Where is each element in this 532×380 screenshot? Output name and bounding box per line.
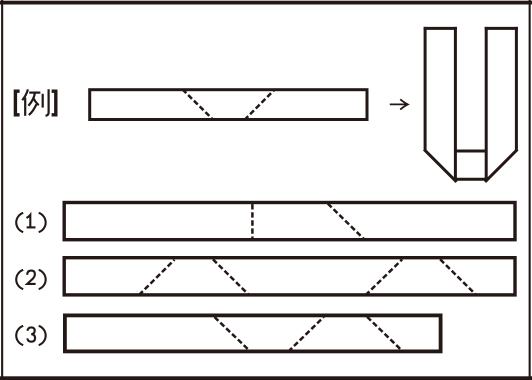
left fold diagonal bbox=[424, 149, 457, 182]
kanji 例 夕 outer slash bbox=[28, 93, 35, 106]
strip (2) backslash crease D dashed bbox=[440, 259, 476, 295]
right arm outer vertical bbox=[515, 27, 518, 150]
strip (1) vertical crease dashed bbox=[251, 204, 254, 238]
strip (3) rectangle bbox=[65, 315, 441, 351]
left arm outer vertical bbox=[424, 27, 427, 150]
left arm top cap bbox=[424, 27, 457, 30]
kanji 例 person radical slash bbox=[22, 89, 28, 100]
kanji 例 夕 lower sweep bbox=[29, 104, 37, 115]
label 【例】 (example) drawn as strokes bbox=[15, 89, 55, 116]
right bracket 】 bbox=[52, 91, 56, 115]
strip (3) backslash crease B dashed bbox=[367, 317, 403, 352]
page frame left bbox=[1, 0, 3, 380]
folded result shape bbox=[424, 27, 518, 182]
square top edge bbox=[455, 150, 486, 153]
square bottom edge bbox=[454, 178, 488, 181]
example strip rectangle bbox=[90, 90, 367, 120]
kanji 例 刂 short vertical bbox=[42, 94, 44, 108]
strip (1) rectangle bbox=[64, 203, 515, 240]
right fold diagonal bbox=[485, 149, 517, 182]
example crease (slash) dashed bbox=[244, 89, 275, 120]
right arm inner vertical bbox=[485, 27, 488, 181]
page frame top bbox=[0, 1, 532, 5]
left bracket 【 bbox=[15, 91, 19, 115]
strip (2) backslash crease B dashed bbox=[213, 259, 249, 295]
strip (3) backslash crease A dashed bbox=[215, 317, 251, 352]
kanji 例 top horizontal of 歹 bbox=[29, 91, 40, 93]
page frame right bbox=[529, 0, 531, 380]
strip (2) rectangle bbox=[64, 258, 515, 295]
left arm inner vertical bbox=[454, 27, 457, 181]
strip (3) slash crease dashed bbox=[288, 317, 324, 352]
strip (2) slash crease A dashed bbox=[139, 260, 175, 295]
strip (2) slash crease C dashed bbox=[366, 259, 403, 295]
kanji 例 刂 long vertical with hook bbox=[46, 89, 49, 116]
label (2) bbox=[16, 270, 45, 289]
kanji 例 夕 inner stroke bbox=[34, 99, 39, 106]
arrow bbox=[390, 99, 408, 109]
label (3) bbox=[16, 326, 45, 345]
right arm top cap bbox=[485, 27, 518, 30]
label (1) bbox=[16, 213, 45, 232]
page frame bottom bbox=[0, 376, 532, 380]
strip (1) backslash crease dashed bbox=[328, 204, 364, 239]
example crease (backslash) dashed bbox=[182, 89, 213, 120]
kanji 例 person radical vertical bbox=[24, 98, 26, 116]
